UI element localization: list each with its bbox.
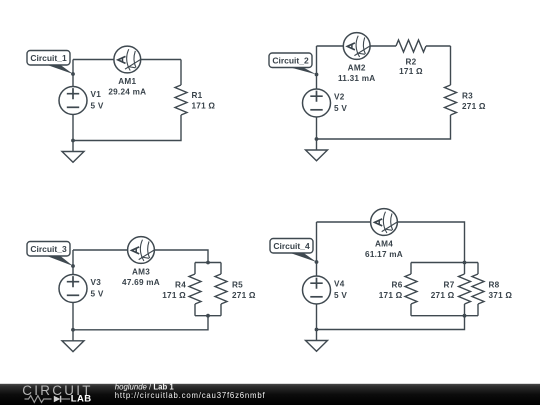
ground [306,139,328,161]
svg-text:5 V: 5 V [91,289,104,298]
svg-text:271 Ω: 271 Ω [232,291,256,300]
svg-text:AM4: AM4 [375,240,393,249]
R6 leads [410,263,412,316]
resistor R4 [189,274,201,304]
svg-text:171 Ω: 171 Ω [162,291,186,300]
R5 leads [220,263,222,316]
junction node [71,328,75,332]
svg-text:R1: R1 [192,91,203,100]
svg-text:R7: R7 [444,281,455,290]
wire right + bottom (circuit 1) [73,60,181,141]
label R4 value [162,280,186,300]
svg-text:LAB: LAB [71,394,92,405]
footer credits [115,382,266,400]
ammeter AM4 [371,209,398,236]
svg-text:http://circuitlab.com/cau37f6z: http://circuitlab.com/cau37f6z6nmbf [115,391,266,400]
junction node [206,314,210,318]
junction node [463,261,467,265]
svg-text:R5: R5 [232,280,243,289]
wire bottom (circuit 3) [73,316,208,330]
svg-text:Circuit_2: Circuit_2 [272,55,309,65]
wire top (circuit 1) [73,59,181,61]
label V3 5 V [91,278,104,298]
svg-text:5 V: 5 V [334,104,347,113]
wire right + bottom (circuit 2) [317,46,451,139]
junction node [71,264,75,268]
voltage source V3 [59,275,87,303]
svg-text:29.24 mA: 29.24 mA [108,88,146,97]
svg-text:171 Ω: 171 Ω [399,67,423,76]
label R6 value [379,281,403,301]
R4 leads [194,263,196,316]
resistor R8 [472,274,484,304]
junction node [71,72,75,76]
svg-text:47.69 mA: 47.69 mA [122,278,160,287]
wire top (circuit 4) [317,222,465,263]
wire left (circuit 4) [316,222,318,330]
resistor R3 [445,85,457,115]
ammeter AM2 [343,33,370,60]
wire left (circuit 2) [316,46,318,139]
svg-text:61.17 mA: 61.17 mA [365,250,403,259]
junction node [315,260,319,264]
svg-text:171 Ω: 171 Ω [192,102,216,111]
svg-text:R2: R2 [406,57,417,66]
R7 leads [464,263,466,316]
callout Circuit_2 [269,53,317,75]
callout Circuit_4 [270,239,317,263]
label AM3 value [122,268,160,287]
voltage source V2 [303,89,331,117]
svg-text:V3: V3 [91,278,102,287]
svg-text:R6: R6 [392,281,403,290]
junction node [315,137,319,141]
svg-text:AM1: AM1 [118,77,136,86]
svg-text:271 Ω: 271 Ω [431,291,455,300]
callout Circuit_3 [27,242,73,267]
ground [62,330,84,352]
svg-text:AM3: AM3 [132,268,150,277]
label V1 5 V [91,90,104,110]
svg-text:V4: V4 [334,280,345,289]
label AM4 value [365,240,403,259]
label AM2 value [338,64,376,83]
svg-text:R3: R3 [462,92,473,101]
junction node [206,261,210,265]
voltage source V4 [303,276,331,304]
junction node [315,73,319,77]
svg-text:271 Ω: 271 Ω [462,102,486,111]
resistor R2 [396,40,426,52]
svg-text:R8: R8 [489,281,500,290]
svg-text:V1: V1 [91,90,102,99]
label R5 value [232,280,256,300]
label R7 value [431,281,455,301]
label R8 value [489,281,513,301]
wire left (circuit 1) [72,60,74,141]
svg-text:R4: R4 [175,280,186,289]
resistor R1 [175,85,187,115]
ground [62,141,84,163]
callout Circuit_1 [27,51,73,75]
resistor R6 [405,274,417,304]
ammeter AM1 [114,46,141,73]
wire top (circuit 2) [317,45,451,47]
wire bottom (circuit 4) [317,316,465,330]
R8 leads [477,263,479,316]
svg-text:Circuit_4: Circuit_4 [273,241,310,251]
junction node [463,314,467,318]
svg-text:171 Ω: 171 Ω [379,291,403,300]
ammeter AM3 [128,237,155,264]
svg-text:AM2: AM2 [348,64,366,73]
label R2 value [399,57,423,76]
parallel bars (circuit 3) [195,263,221,316]
CircuitLab logo [22,383,92,405]
svg-text:V2: V2 [334,93,345,102]
resistor R7 [459,274,471,304]
svg-text:371 Ω: 371 Ω [489,291,513,300]
label R3 value [462,92,486,112]
label R1 value [192,91,216,111]
wire top (circuit 3) [73,250,208,263]
wire left (circuit 3) [72,250,74,330]
svg-text:Circuit_1: Circuit_1 [30,53,67,63]
svg-text:Circuit_3: Circuit_3 [30,244,67,254]
resistor R5 [215,274,227,304]
label V2 5 V [334,93,347,113]
footer bar [0,384,540,405]
voltage source V1 [59,87,87,115]
ground [306,330,328,352]
svg-text:11.31 mA: 11.31 mA [338,74,376,83]
svg-text:5 V: 5 V [334,291,347,300]
svg-text:5 V: 5 V [91,101,104,110]
junction node [71,139,75,143]
parallel bars (circuit 4) [411,263,478,316]
junction node [315,328,319,332]
label V4 5 V [334,280,347,300]
label AM1 value [108,77,146,96]
